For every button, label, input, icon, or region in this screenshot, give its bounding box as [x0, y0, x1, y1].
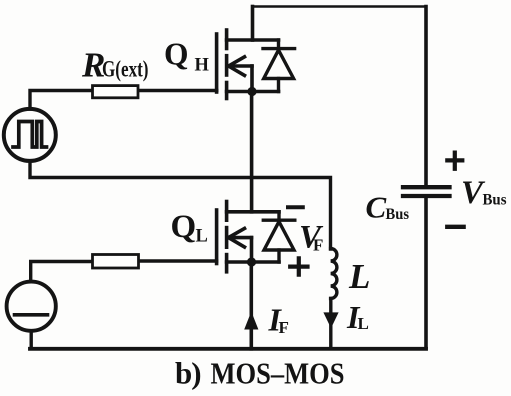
svg-text:C: C: [366, 190, 387, 225]
svg-text:F: F: [279, 318, 289, 337]
svg-text:MOS–MOS: MOS–MOS: [211, 356, 345, 391]
svg-text:L: L: [358, 314, 369, 333]
svg-text:G(ext): G(ext): [102, 57, 149, 82]
svg-text:H: H: [195, 56, 210, 76]
svg-text:L: L: [348, 257, 370, 296]
svg-text:b): b): [175, 356, 201, 391]
svg-text:Q: Q: [164, 37, 189, 72]
svg-text:Bus: Bus: [483, 192, 507, 209]
svg-text:Bus: Bus: [386, 206, 410, 223]
svg-text:L: L: [196, 227, 208, 247]
svg-text:F: F: [313, 236, 323, 255]
svg-text:Q: Q: [171, 209, 197, 245]
